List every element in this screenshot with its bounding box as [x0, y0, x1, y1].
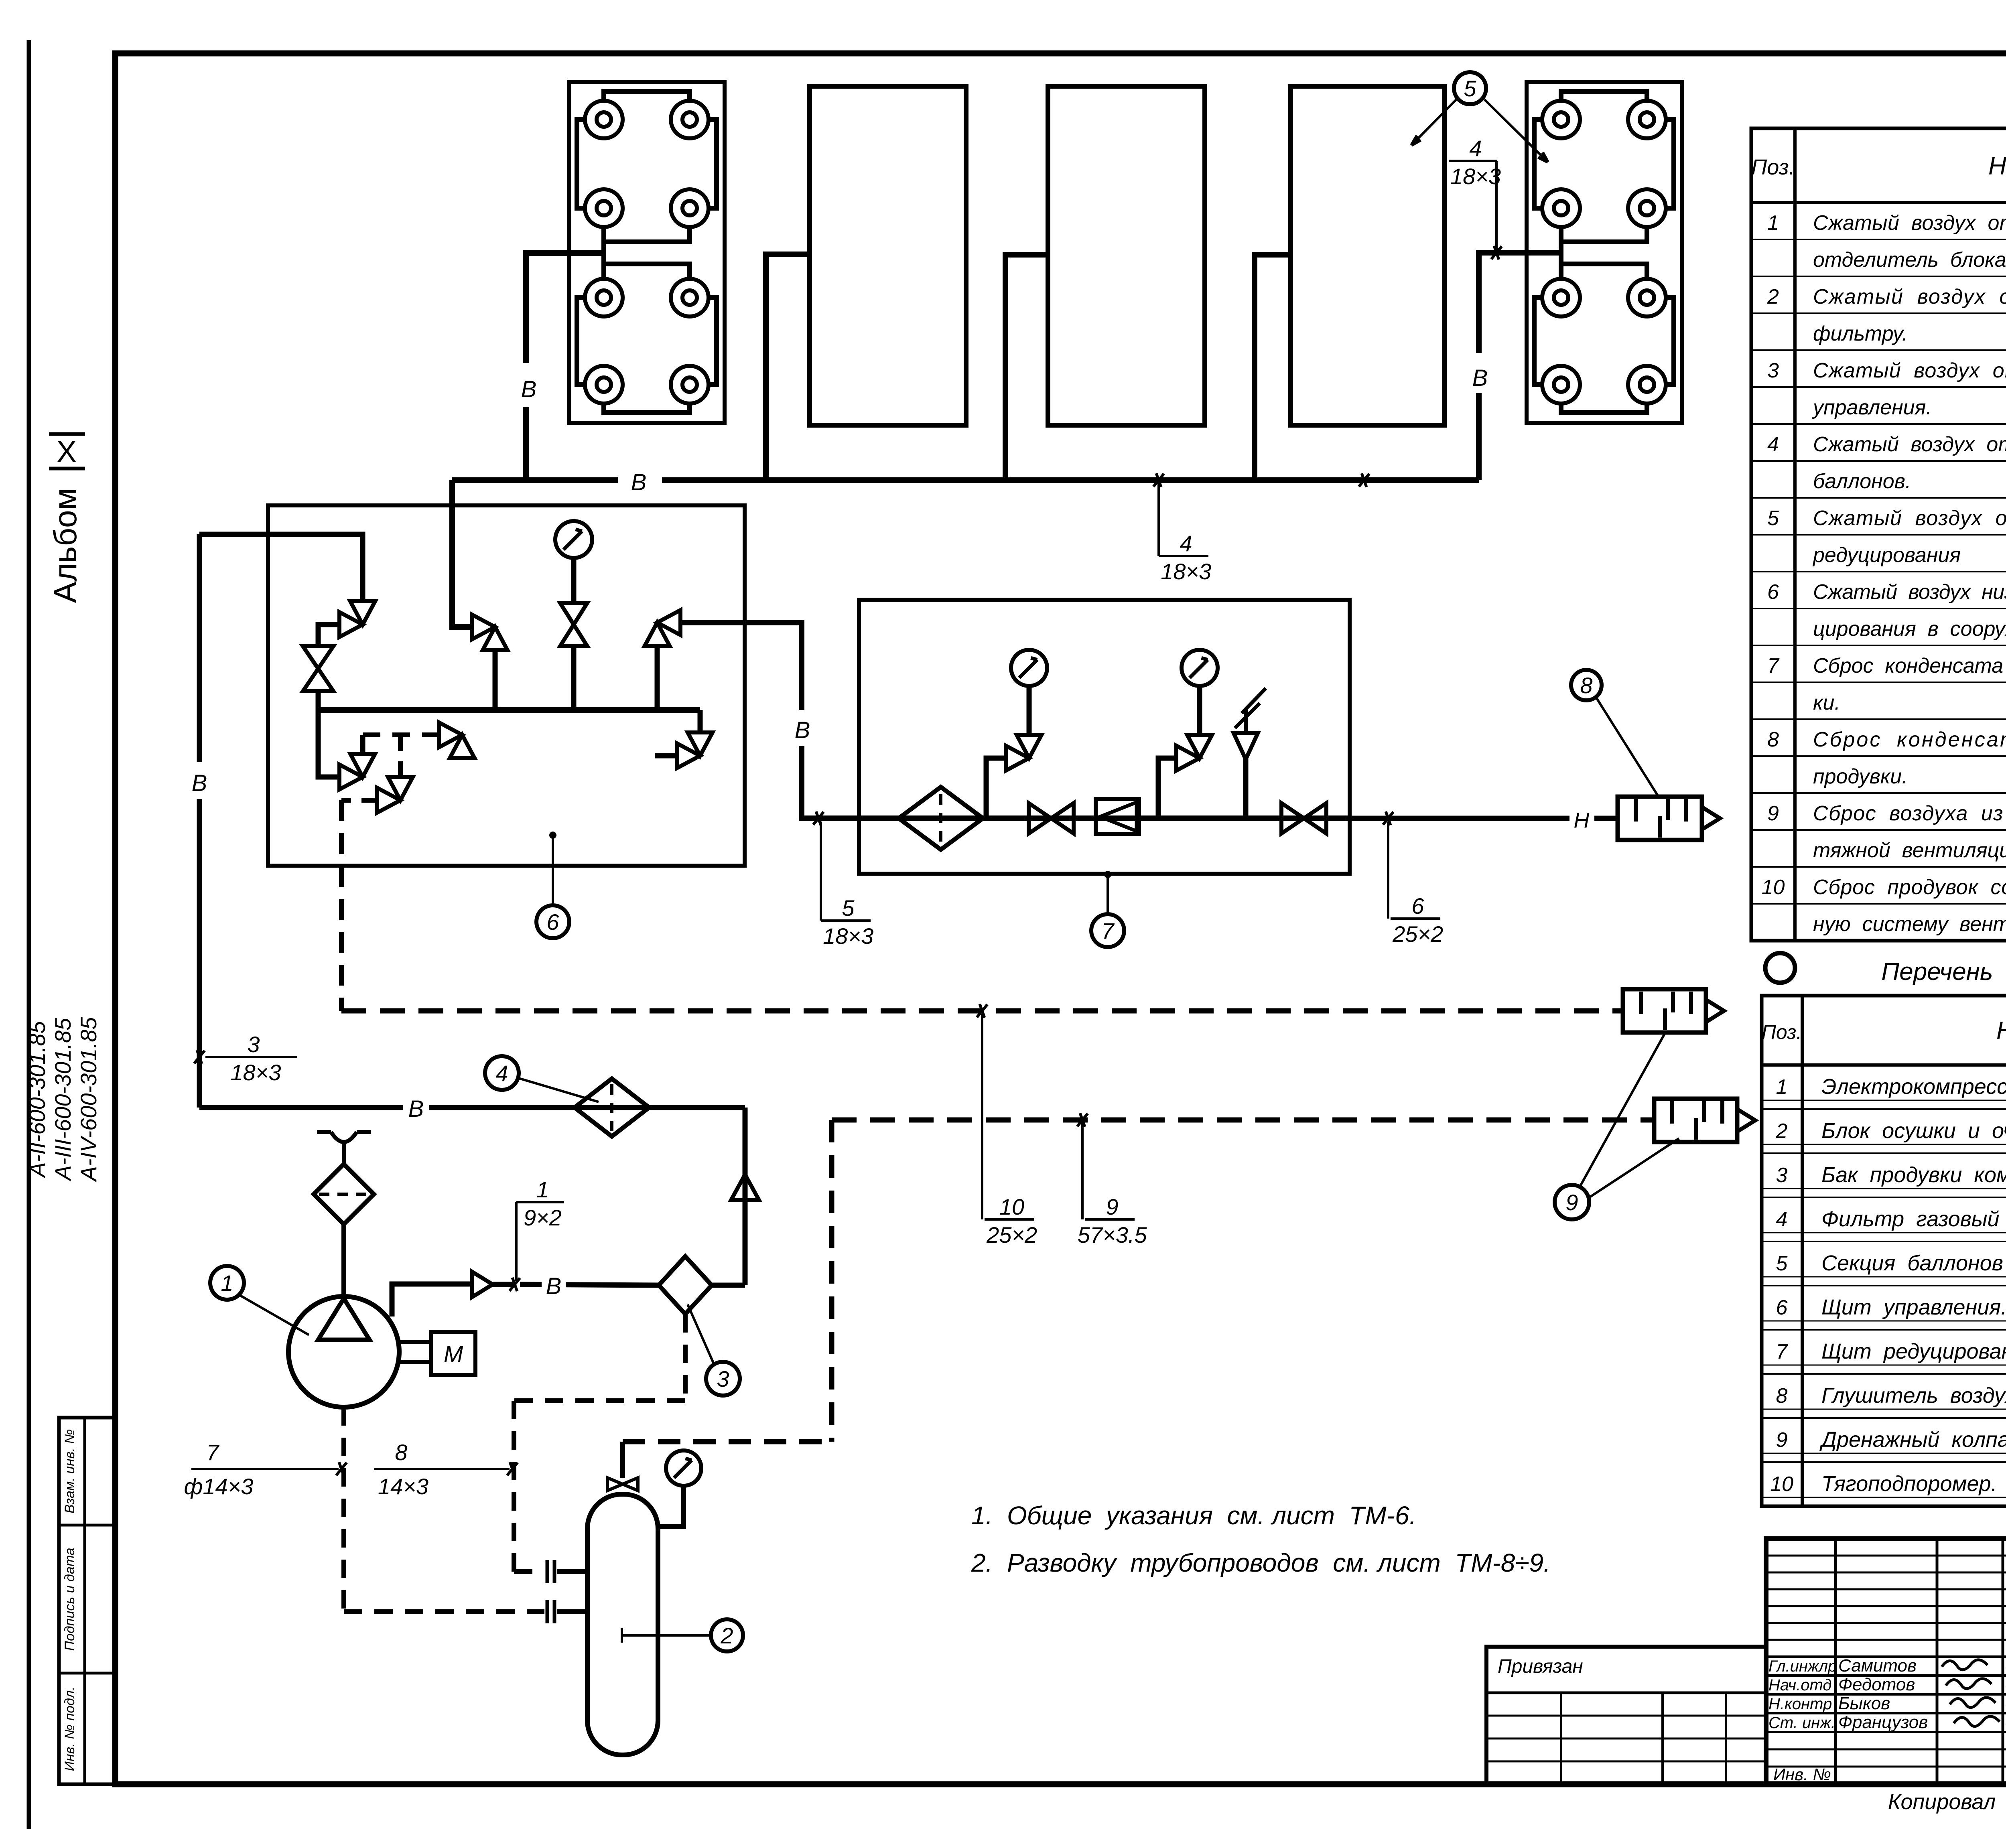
svg-text:Инв. № подл.: Инв. № подл. — [62, 1687, 77, 1771]
svg-text:Сжатый воздух от компрессор: Сжатый воздух от компрессора во влагомас… — [1813, 211, 2006, 235]
wire: feed to rectangle 3 — [1005, 255, 1048, 480]
wire: feed to rectangle 2 — [766, 254, 810, 480]
svg-text:Глушитель воздуха УГВ-М.: Глушитель воздуха УГВ-М. — [1821, 1383, 2006, 1408]
vent valve V8 — [439, 722, 462, 747]
wire: intake to compressor — [341, 1224, 346, 1298]
leader for label 4 top right — [1495, 161, 1498, 250]
wire: dashed tee drop — [398, 735, 403, 777]
svg-text:10: 10 — [999, 1194, 1024, 1219]
svg-text:9: 9 — [1776, 1428, 1788, 1452]
svg-text:В: В — [546, 1273, 562, 1299]
wire: line 3 entry into panel 6 — [199, 534, 363, 602]
wire: riser to gauge valve 1 — [986, 758, 1006, 818]
wire: dashed to line 10 drop — [341, 798, 378, 803]
tick line 10 — [977, 1004, 987, 1017]
svg-text:18×3: 18×3 — [230, 1060, 281, 1085]
wire: B drop into panel 6 — [452, 480, 472, 627]
leader from circle 4 to filter — [519, 1078, 599, 1102]
gauge MN1 of panel 6 — [555, 521, 592, 558]
svg-text:8: 8 — [1580, 673, 1592, 698]
leader from circle 3 to filter 3 — [688, 1304, 715, 1365]
wire: dashed line 9 to tank — [623, 1439, 832, 1444]
svg-text:5: 5 — [1776, 1252, 1788, 1275]
flange pair line 7 — [546, 1600, 549, 1623]
position circle 3 — [706, 1362, 740, 1396]
pipe label 5 / 18x3 — [821, 919, 871, 922]
air muffler 8 — [1618, 797, 1702, 840]
tick line 4 top right — [1491, 246, 1502, 259]
svg-text:цирования в сооружение на: цирования в сооружение на падпор. — [1813, 617, 2006, 641]
leader circle 9 to cap on line 10 — [1580, 1032, 1666, 1187]
leader circle 9 to cap on line 9 — [1589, 1138, 1679, 1198]
wire: V5 to manifold — [655, 646, 660, 710]
svg-text:5: 5 — [1767, 507, 1779, 530]
wire: dashed line 10 drop from panel 6 — [339, 800, 344, 1011]
svg-text:2. Разводку трубопроводов с: 2. Разводку трубопроводов см. лист ТМ-8÷… — [971, 1548, 1551, 1577]
svg-text:Щит редуцирования.: Щит редуцирования. — [1821, 1339, 2006, 1363]
tick on manifold right — [1359, 474, 1369, 487]
svg-text:Дренажный колпак.: Дренажный колпак. — [1819, 1428, 2006, 1452]
drain cap on line 10 — [1623, 989, 1706, 1033]
svg-text:Поз.: Поз. — [1762, 1021, 1802, 1043]
wire: tank top stem — [620, 1442, 625, 1478]
leader for label 9 — [1081, 1123, 1084, 1219]
svg-text:ф14×3: ф14×3 — [184, 1474, 254, 1499]
wire: vent stub V6 — [655, 753, 677, 759]
svg-text:Альбом: Альбом — [47, 488, 83, 603]
blowdown tank 2 — [587, 1494, 658, 1755]
svg-text:Фильтр газовый АФ-002.: Фильтр газовый АФ-002. — [1821, 1207, 2006, 1231]
leader for label 6 — [1387, 822, 1389, 919]
tick line 9 — [1077, 1114, 1088, 1126]
svg-text:Французов: Французов — [1838, 1712, 1928, 1732]
svg-text:7: 7 — [206, 1440, 219, 1465]
leader for position 6 — [552, 835, 554, 905]
svg-text:1: 1 — [1776, 1075, 1788, 1099]
angle valve V12 under gauge — [1176, 746, 1200, 771]
svg-text:Электрокомпрессор воздушный: Электрокомпрессор воздушный КР-2. — [1821, 1075, 2006, 1099]
leader from circle 1 to compressor — [239, 1295, 309, 1335]
svg-text:57×3.5: 57×3.5 — [1078, 1222, 1147, 1248]
pipe label 8 bar — [374, 1468, 510, 1470]
position circle 1 — [210, 1266, 244, 1300]
pipe label 4 / 18x3 (top right) — [1449, 160, 1497, 162]
svg-text:Наименование: Наименование — [1996, 1017, 2006, 1045]
svg-text:9: 9 — [1106, 1194, 1118, 1219]
tick line 5 before panel 7 — [813, 812, 824, 825]
motor M — [399, 1340, 431, 1344]
pipe label 4 / 18x3 (manifold) — [1159, 555, 1208, 557]
svg-text:10: 10 — [1770, 1473, 1793, 1496]
svg-text:6: 6 — [1411, 893, 1424, 919]
angle valve V5 right — [657, 610, 680, 635]
svg-text:В: В — [1472, 365, 1488, 391]
cylinder section 5 (right battery) — [1527, 82, 1682, 423]
angle valve V3 on B drop — [472, 615, 495, 639]
safety valve SV — [1243, 759, 1249, 818]
pipe label 9 / 57x3.5 — [1085, 1218, 1135, 1221]
svg-text:6: 6 — [1776, 1296, 1788, 1319]
tick line 6 — [1383, 812, 1393, 825]
flange pair line 8 — [546, 1560, 549, 1583]
svg-text:В: В — [408, 1096, 424, 1122]
pipe label 3 / 18x3 — [205, 1056, 297, 1058]
wire: dashed line 8 from filter 3 — [683, 1314, 688, 1401]
wire: line 5 from panel 6 to panel 7 — [681, 623, 859, 818]
leader from circle 8 to muffler — [1596, 697, 1659, 797]
gate valve V11 on main line — [1029, 803, 1051, 834]
leader for label 5 — [820, 822, 822, 921]
leader for position 7 — [1107, 874, 1109, 914]
svg-text:М: М — [444, 1341, 463, 1367]
cylinder section rectangle 3 — [1048, 86, 1205, 425]
equipment list title circle — [1765, 953, 1795, 983]
tick line 1 — [510, 1278, 520, 1291]
svg-text:ки.: ки. — [1813, 691, 1840, 714]
binding table left of title block — [1486, 1647, 1766, 1784]
svg-text:В: В — [795, 717, 810, 743]
svg-text:Федотов: Федотов — [1838, 1675, 1915, 1694]
wire: line 2 horizontal to filter 4 — [199, 1105, 745, 1110]
wire: manifold end drop — [698, 710, 703, 733]
vent valve V6 — [688, 732, 713, 756]
svg-text:В: В — [631, 469, 647, 495]
svg-text:Блок осушки и очистки сжат: Блок осушки и очистки сжатого воздуха Б0… — [1821, 1119, 2006, 1143]
gauge MN2 — [1011, 650, 1047, 686]
svg-text:3: 3 — [247, 1032, 260, 1057]
svg-text:1: 1 — [1767, 211, 1779, 235]
wire: dashed line 9 horizontal — [832, 1118, 1654, 1123]
svg-text:отделитель блока очистки и: отделитель блока очистки и осушки. — [1813, 248, 2006, 272]
svg-text:Сжатый воздух от щита упра: Сжатый воздух от щита управления к секци… — [1813, 433, 2006, 456]
pipe list table — [1751, 128, 2006, 941]
svg-text:Копировал: Копировал — [1888, 1790, 1996, 1814]
tank neck valve — [607, 1478, 623, 1491]
svg-text:7: 7 — [1776, 1340, 1789, 1363]
position circle 6 — [536, 905, 569, 938]
svg-text:ную систему вентиляции.: ную систему вентиляции. — [1813, 913, 2006, 936]
svg-text:А-IV-600-301.85: А-IV-600-301.85 — [76, 1017, 101, 1183]
moisture separator filter 3 — [712, 1283, 745, 1288]
wire: panel 7 main line — [859, 815, 1350, 821]
margin stamp boxes — [59, 1418, 114, 1784]
pipe label 7 bar — [191, 1468, 339, 1470]
svg-text:А-II-600-301.85: А-II-600-301.85 — [24, 1021, 50, 1179]
svg-text:Привязан: Привязан — [1498, 1656, 1583, 1677]
svg-text:5: 5 — [842, 895, 855, 921]
svg-text:Быков: Быков — [1838, 1694, 1890, 1713]
svg-text:10: 10 — [1762, 876, 1785, 899]
pipe label 1 / 9x2 — [516, 1201, 564, 1203]
svg-text:Взам. инв. №: Взам. инв. № — [62, 1429, 77, 1513]
wire: riser to right battery — [1479, 253, 1561, 480]
wire: manifold line 4 — [452, 477, 1479, 483]
svg-text:2: 2 — [1767, 285, 1779, 308]
svg-text:8: 8 — [1776, 1384, 1788, 1408]
svg-text:4: 4 — [1767, 433, 1779, 456]
wire: line 3 riser left — [197, 534, 202, 1108]
leader from circle 2 to tank — [622, 1634, 711, 1637]
pipe label 10 / 25x2 — [985, 1218, 1034, 1221]
svg-text:Подпись и дата: Подпись и дата — [62, 1548, 77, 1651]
svg-text:Х: Х — [57, 435, 77, 469]
svg-text:1: 1 — [221, 1270, 233, 1296]
svg-text:2: 2 — [720, 1623, 733, 1648]
svg-text:Инв. №: Инв. № — [1773, 1765, 1831, 1784]
check valve CV1 — [472, 1272, 493, 1297]
wire: drain drop below manifold — [318, 710, 340, 777]
svg-text:Нач.отд: Нач.отд — [1768, 1676, 1832, 1694]
svg-text:Бак продувки компрессора БП: Бак продувки компрессора БПК-3. — [1821, 1163, 2006, 1187]
svg-text:18×3: 18×3 — [1450, 164, 1501, 189]
tank gauge — [666, 1450, 701, 1486]
wire: riser filter3 to line 2 — [743, 1108, 748, 1285]
svg-text:7: 7 — [1767, 654, 1780, 678]
svg-text:6: 6 — [1767, 580, 1779, 604]
svg-text:7: 7 — [1101, 918, 1115, 943]
svg-text:9×2: 9×2 — [524, 1205, 562, 1230]
svg-text:Тягоподпоромер.: Тягоподпоромер. — [1821, 1472, 1997, 1496]
angle valve V9 — [388, 777, 413, 800]
position circle 4 — [485, 1056, 519, 1090]
gas filter 4 — [575, 1079, 649, 1136]
gauge valve V4 — [560, 603, 587, 625]
wire: gauge 1 stem — [1027, 687, 1032, 735]
svg-text:А-III-600-301.85: А-III-600-301.85 — [50, 1018, 75, 1182]
svg-text:Наименование: Наименование — [1988, 152, 2006, 180]
svg-text:2: 2 — [1776, 1120, 1788, 1143]
gate valve V2 — [303, 646, 333, 669]
wire: dashed line 10 — [341, 1008, 1623, 1014]
svg-text:4: 4 — [1776, 1208, 1788, 1231]
svg-text:Сброс конденсата из компрес: Сброс конденсата из компрессора в бак пр… — [1813, 654, 2006, 678]
cylinder section rectangle 2 — [810, 86, 966, 425]
svg-text:Самитов: Самитов — [1838, 1656, 1917, 1676]
svg-text:Гл.инжлр: Гл.инжлр — [1768, 1657, 1837, 1675]
wire: V3 to manifold — [493, 650, 498, 710]
svg-text:Н.контр: Н.контр — [1768, 1695, 1832, 1713]
reduction panel 7 box — [859, 600, 1350, 874]
wire: dashed blowoff header — [363, 732, 441, 737]
svg-text:1: 1 — [536, 1177, 549, 1202]
svg-text:18×3: 18×3 — [1161, 559, 1211, 584]
wire: line 1 to filter 3 — [520, 1284, 659, 1285]
svg-text:9: 9 — [1767, 802, 1779, 825]
position circle 2 — [711, 1619, 743, 1651]
position circle 8 — [1571, 670, 1602, 700]
position circle 7 — [1091, 914, 1124, 947]
check valve CV2 — [731, 1175, 759, 1200]
leader from circle 5 to rectangle 4 — [1411, 99, 1456, 145]
svg-text:6: 6 — [546, 909, 559, 935]
svg-text:Н: Н — [1574, 808, 1590, 832]
intake filter diamond — [314, 1164, 374, 1224]
leader from circle 5 to right battery — [1484, 99, 1548, 162]
svg-text:Сжатый воздух от газового: Сжатый воздух от газового фильтра к щиту — [1813, 359, 2006, 382]
title block — [1766, 1539, 2006, 1784]
wire: gauge stem — [571, 558, 577, 602]
wire: riser to gauge valve 2 — [1158, 758, 1177, 818]
air intake funnel — [317, 1130, 331, 1134]
svg-text:Сжатый воздух от блока осу: Сжатый воздух от блока осушки к газовому — [1813, 285, 2006, 308]
position circle 5 — [1454, 72, 1486, 104]
svg-text:Сжатый воздух низкого давле: Сжатый воздух низкого давления от щита р… — [1813, 580, 2006, 604]
svg-text:3: 3 — [1767, 359, 1779, 382]
compressor 1 — [288, 1296, 399, 1407]
wire: panel 6 internal manifold — [318, 707, 700, 713]
svg-text:В: В — [521, 376, 537, 402]
svg-text:Щит управления.: Щит управления. — [1821, 1295, 2006, 1319]
svg-text:1. Общие указания см. лист: 1. Общие указания см. лист ТМ-6. — [971, 1501, 1416, 1530]
cylinder section 5 (left battery) — [569, 82, 725, 423]
svg-text:14×3: 14×3 — [378, 1474, 428, 1499]
svg-text:5: 5 — [1464, 76, 1476, 101]
wire: riser from left battery — [526, 253, 604, 480]
wire: dashed line 7 from compressor — [341, 1407, 346, 1612]
svg-text:баллонов.: баллонов. — [1813, 470, 1911, 493]
position circle 9 — [1555, 1185, 1589, 1219]
control panel 6 box — [268, 505, 745, 866]
gate valve V13 on main line — [1281, 803, 1304, 834]
sheet left edge — [27, 40, 31, 1829]
svg-text:В: В — [192, 770, 207, 796]
svg-text:4: 4 — [495, 1061, 508, 1086]
equipment list table — [1762, 996, 2006, 1506]
svg-text:9: 9 — [1565, 1190, 1578, 1215]
pipe label 6 / 25x2 — [1391, 917, 1440, 920]
svg-text:8: 8 — [395, 1440, 407, 1465]
svg-text:Поз.: Поз. — [1751, 155, 1795, 179]
svg-text:управления.: управления. — [1812, 396, 1932, 419]
svg-text:18×3: 18×3 — [823, 923, 873, 949]
svg-text:Ст. инж.: Ст. инж. — [1768, 1714, 1835, 1732]
drain cap on line 9 — [1654, 1099, 1737, 1142]
wire: gate valve to manifold — [316, 691, 321, 710]
wire: dashed line 9 drop — [829, 1120, 834, 1442]
svg-text:фильтру.: фильтру. — [1813, 322, 1908, 345]
wire: feed to rectangle 4 — [1255, 255, 1291, 480]
cylinder section rectangle 4 — [1291, 86, 1444, 425]
svg-text:Секция баллонов 8Б200-200.: Секция баллонов 8Б200-200. — [1821, 1251, 2006, 1275]
angle valve V1 — [350, 601, 375, 625]
svg-text:продувки.: продувки. — [1813, 765, 1908, 788]
pressure reducer — [1096, 799, 1139, 834]
wire: gauge 2 stem — [1197, 687, 1202, 735]
svg-text:4: 4 — [1180, 531, 1192, 556]
svg-text:Сброс воздуха из бака прод: Сброс воздуха из бака продувки в камеру … — [1813, 802, 2006, 825]
angle valve V7 drain — [339, 765, 363, 789]
tick line 4 at manifold — [1153, 474, 1164, 487]
wire: tank gauge connection — [658, 1487, 684, 1527]
wire: compressor discharge — [392, 1284, 472, 1317]
wire: V1 to gate valve — [318, 625, 339, 647]
svg-text:25×2: 25×2 — [1392, 921, 1443, 947]
filter F1 in panel 7 — [899, 787, 983, 850]
svg-text:25×2: 25×2 — [986, 1222, 1037, 1248]
svg-text:8: 8 — [1767, 728, 1779, 751]
leader for label 1 — [515, 1202, 518, 1281]
svg-text:3: 3 — [717, 1366, 729, 1392]
svg-text:Сжатый воздух от щита упра: Сжатый воздух от щита управления к щиту — [1813, 507, 2006, 530]
svg-text:3: 3 — [1776, 1164, 1788, 1187]
tick line 3 — [194, 1051, 205, 1063]
svg-text:редуцирования: редуцирования — [1812, 544, 1961, 567]
gauge MN3 — [1182, 650, 1218, 686]
svg-text:тяжной вентиляции.: тяжной вентиляции. — [1813, 839, 2006, 862]
wire: line 6 from panel 7 — [1350, 816, 1618, 821]
svg-text:Сброс продувок со щита упр: Сброс продувок со щита управления в вытя… — [1813, 876, 2006, 899]
leader for label 10 — [981, 1014, 983, 1219]
angle valve V10 under gauge — [1006, 746, 1029, 771]
wire: V4 to manifold — [571, 647, 577, 710]
svg-text:Перечень основного оборудо: Перечень основного оборудования. — [1881, 958, 2006, 986]
svg-text:4: 4 — [1469, 136, 1482, 161]
leader for label 4 under manifold — [1157, 483, 1160, 556]
wire: V7 riser to blowoff header — [360, 735, 365, 754]
